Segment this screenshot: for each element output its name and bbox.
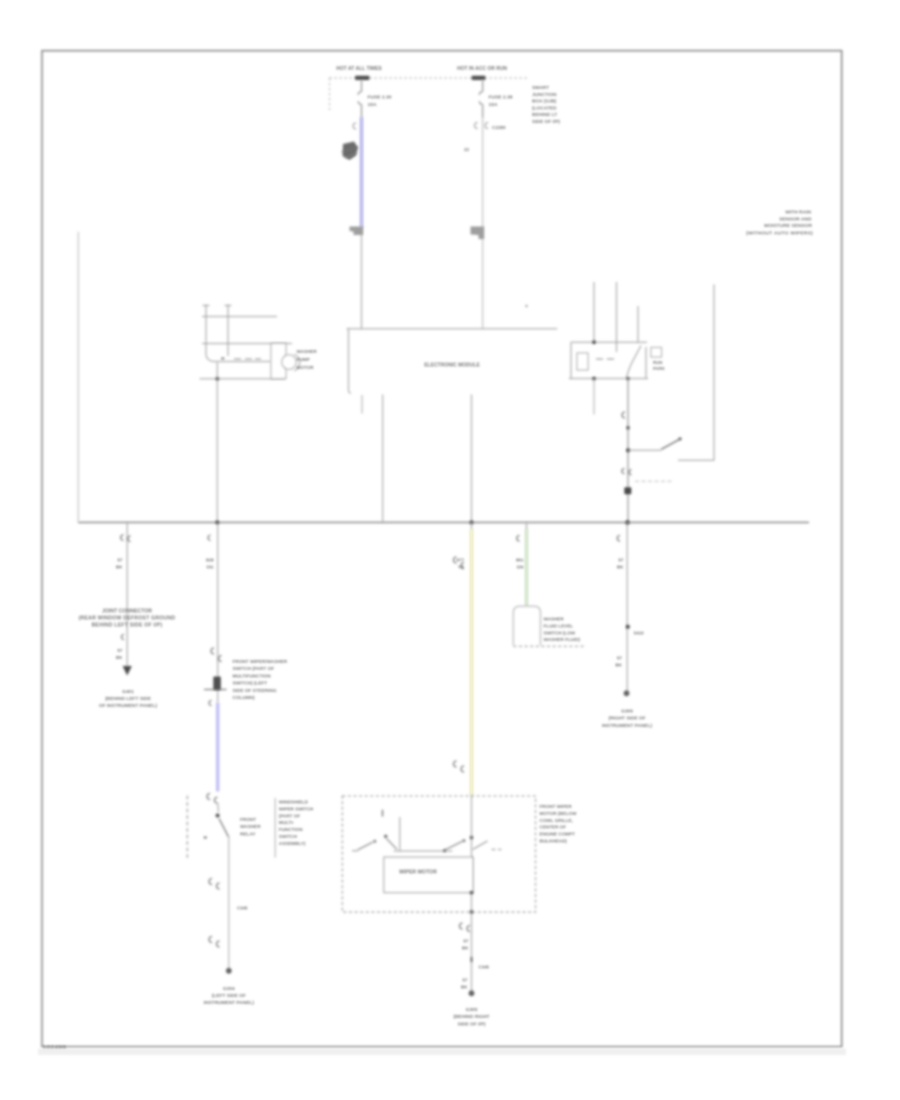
- node dot bus tap 2: [470, 521, 474, 525]
- wiper switch label block: [279, 800, 314, 846]
- wire tall left riser: [77, 232, 79, 523]
- svg-text:MULTI-: MULTI-: [279, 820, 295, 825]
- wire drop W4 green base: [526, 522, 528, 606]
- wire W5 color code: [617, 558, 624, 570]
- park switch right blade: [387, 839, 398, 850]
- svg-text:SWITCH: SWITCH: [279, 834, 298, 839]
- bus bar tap 1: [355, 76, 370, 80]
- ground G305 label: [602, 709, 653, 729]
- svg-text:G305: G305: [621, 709, 633, 715]
- wire W2 color code: [206, 558, 214, 570]
- park switch left blade: [358, 842, 374, 850]
- contact rail: [394, 850, 453, 852]
- motor M1 wire code dashes: [234, 358, 261, 360]
- svg-text:COWL GRILLE,: COWL GRILLE,: [540, 818, 573, 823]
- svg-text:(LOCATED: (LOCATED: [532, 105, 557, 111]
- svg-text:JUNCTION: JUNCTION: [532, 92, 557, 98]
- connector tick: [622, 412, 625, 418]
- svg-text:(PART OF: (PART OF: [279, 813, 301, 818]
- wire ground bus horizontal: [78, 521, 809, 523]
- svg-text:(RIGHT SIDE OF: (RIGHT SIDE OF: [608, 716, 645, 722]
- svg-text:MOISTURE SENSOR: MOISTURE SENSOR: [764, 223, 812, 229]
- svg-text:WASHER FLUID): WASHER FLUID): [544, 637, 581, 642]
- svg-text:S410: S410: [634, 631, 645, 636]
- svg-text:22: 22: [464, 147, 470, 152]
- washer relay label: [240, 817, 261, 836]
- switch label block W2: [233, 659, 288, 700]
- ground G305 dot: [624, 690, 630, 696]
- connector pair marks W2 low: [209, 879, 219, 890]
- splice S3 block: [213, 677, 221, 691]
- svg-text:WITH RAIN: WITH RAIN: [785, 210, 811, 216]
- switch SW2 pivot: [216, 814, 220, 818]
- svg-text:BK: BK: [116, 655, 123, 660]
- ground G304 dot: [226, 968, 232, 974]
- svg-text:57: 57: [618, 558, 624, 563]
- svg-text:15A: 15A: [489, 102, 498, 108]
- run contact blade A: [444, 841, 463, 851]
- wire below enclosure W3 tail: [471, 912, 473, 993]
- connector pair marks below blue: [207, 794, 218, 804]
- wire module drop A: [361, 395, 363, 414]
- node dot enclosure exit: [470, 910, 473, 913]
- svg-text:57: 57: [462, 978, 468, 983]
- connector C2280 marks: [475, 123, 489, 129]
- park contact riser: [399, 817, 401, 851]
- in-line connector on wire 2: [471, 227, 485, 240]
- svg-text:COLUMN): COLUMN): [233, 695, 256, 700]
- wire W3 yellow overlay: [470, 529, 473, 795]
- wire inside enclosure: [471, 796, 473, 912]
- wire below switch SW2: [228, 837, 230, 971]
- svg-text:GN: GN: [517, 565, 525, 570]
- park switch pivot dot: [384, 835, 387, 838]
- wiper motor label block: [540, 804, 578, 844]
- wire drop W5: [626, 522, 628, 693]
- wire W4 color code: [516, 558, 524, 570]
- svg-text:57: 57: [117, 648, 123, 653]
- svg-text:CENTER OF: CENTER OF: [540, 825, 567, 830]
- node junction dot left motor drop: [216, 377, 219, 380]
- svg-text:928: 928: [206, 558, 214, 563]
- svg-text:(WITHOUT AUTO WIPERS): (WITHOUT AUTO WIPERS): [746, 231, 813, 237]
- svg-text:BK: BK: [461, 985, 468, 990]
- connector pair marks W2 lower: [209, 937, 219, 948]
- svg-text:SWITCH (PART OF: SWITCH (PART OF: [233, 666, 275, 671]
- svg-text:(BEHIND LEFT SIDE: (BEHIND LEFT SIDE: [105, 696, 152, 702]
- svg-text:BK: BK: [462, 946, 469, 951]
- svg-text:G401: G401: [122, 689, 134, 695]
- svg-text:SIDE OF I/P): SIDE OF I/P): [458, 1021, 486, 1027]
- svg-text:SENSOR AND: SENSOR AND: [779, 216, 812, 222]
- wire drop W2: [217, 522, 219, 702]
- connector mark W4: [517, 536, 520, 542]
- ground G305b dot: [469, 990, 475, 996]
- switch SW1 blade: [661, 439, 681, 450]
- svg-text:WIPER MOTOR: WIPER MOTOR: [399, 870, 437, 876]
- wire blue segment: [360, 117, 363, 228]
- wire drop W3 yellow base: [471, 522, 473, 796]
- svg-text:57: 57: [117, 558, 123, 563]
- connector mark: [209, 701, 212, 706]
- svg-text:WASHER: WASHER: [297, 349, 318, 354]
- smart junction box label: [532, 85, 560, 125]
- connector pair marks W3 low: [454, 761, 465, 772]
- svg-text:RUN: RUN: [653, 360, 662, 365]
- svg-text:(BEHIND RIGHT: (BEHIND RIGHT: [453, 1014, 489, 1020]
- svg-text:BEHIND LT: BEHIND LT: [532, 112, 557, 118]
- svg-text:WIPER SWITCH: WIPER SWITCH: [279, 806, 314, 811]
- svg-text:FRONT WIPER/WASHER: FRONT WIPER/WASHER: [233, 659, 288, 664]
- svg-text:RELAY: RELAY: [240, 831, 256, 836]
- svg-text:BEHIND LEFT SIDE OF I/P): BEHIND LEFT SIDE OF I/P): [92, 623, 163, 629]
- svg-text:M: M: [204, 835, 208, 840]
- svg-text:FRONT WIPER: FRONT WIPER: [540, 804, 573, 809]
- connector pair marks tail: [460, 923, 471, 932]
- svg-text:FUSE 2.30: FUSE 2.30: [368, 95, 392, 101]
- wire W1 color code lower: [116, 648, 123, 660]
- ground G304 label: [204, 986, 255, 1006]
- ground G401 arrow: [123, 666, 132, 676]
- svg-text:M: M: [221, 356, 225, 361]
- relay K1: [569, 282, 662, 379]
- node dots relay K1: [592, 340, 596, 344]
- svg-text:FUNCTION: FUNCTION: [279, 827, 303, 832]
- svg-text:G304: G304: [223, 986, 235, 992]
- svg-text:INSTRUMENT PANEL): INSTRUMENT PANEL): [204, 1000, 255, 1006]
- connector pin mark: [353, 123, 356, 129]
- washer fluid switch body: [513, 606, 540, 645]
- dashed link line: [186, 796, 188, 859]
- svg-text:C345: C345: [479, 965, 490, 970]
- connector C345 tick: [471, 957, 473, 962]
- connector mark W5: [617, 536, 620, 542]
- svg-text:MOTOR: MOTOR: [297, 365, 315, 370]
- connector pair marks W2: [211, 648, 222, 662]
- bus bar tap 2: [472, 76, 486, 80]
- dashed ref line: [635, 480, 672, 482]
- ground G305b label: [453, 1007, 489, 1027]
- svg-text:(REAR WINDOW DEFROST GROUND: (REAR WINDOW DEFROST GROUND: [79, 616, 176, 622]
- svg-text:WASHER: WASHER: [544, 617, 565, 622]
- connector tick under block: [122, 635, 124, 640]
- motor M1 name label: [297, 349, 318, 370]
- connector label block W1: [79, 609, 176, 629]
- svg-text:INSTRUMENT PANEL): INSTRUMENT PANEL): [602, 723, 653, 729]
- wire tail color code lower: [461, 978, 468, 990]
- note block top right: [746, 210, 813, 237]
- splice S2: [624, 487, 631, 494]
- svg-text:SIDE OF STEERING: SIDE OF STEERING: [233, 688, 277, 693]
- svg-text:57: 57: [463, 939, 469, 944]
- svg-text:(LEFT SIDE OF: (LEFT SIDE OF: [212, 993, 246, 999]
- svg-text:PUMP: PUMP: [297, 357, 310, 362]
- wire W4 green overlay: [525, 529, 528, 605]
- svg-text:SWITCH) (LEFT: SWITCH) (LEFT: [233, 681, 268, 686]
- connector pair marks W3: [454, 557, 465, 569]
- svg-text:SWITCH (LOW: SWITCH (LOW: [544, 630, 576, 635]
- svg-text:C2280: C2280: [492, 125, 506, 130]
- wire switch arm horizontal: [628, 449, 661, 451]
- switch SW2 blade: [219, 819, 229, 838]
- wire drop W1: [126, 522, 128, 667]
- wire motor M1 to bus: [216, 362, 218, 522]
- wire relay K1 stub down: [593, 379, 595, 415]
- svg-text:FRONT: FRONT: [240, 817, 256, 822]
- svg-text:BK: BK: [116, 565, 123, 570]
- in-line connector on wire 1: [350, 227, 364, 236]
- connector mark W1: [121, 535, 131, 542]
- wiper motor dashed enclosure: [342, 796, 535, 912]
- wire tall return line: [678, 284, 714, 460]
- connector pair marks: [622, 469, 632, 475]
- splice S410 dot: [626, 625, 630, 629]
- wire blue segment W2: [216, 703, 219, 792]
- svg-text:977: 977: [456, 558, 464, 563]
- washer pump motor M1: [200, 305, 300, 379]
- splice S1 marker: [343, 142, 359, 161]
- node junction dot at bus: [625, 520, 629, 524]
- bracket line: [274, 798, 276, 858]
- svg-text:PARK: PARK: [653, 366, 666, 371]
- relay K1 side labels: [653, 360, 666, 371]
- svg-text:SIDE OF I/P): SIDE OF I/P): [532, 119, 560, 125]
- node junction dot switch feed: [626, 448, 630, 452]
- node dot bus tap 1: [215, 521, 219, 525]
- pin tick inside: [382, 810, 384, 817]
- svg-text:JOINT CONNECTOR: JOINT CONNECTOR: [102, 609, 152, 615]
- svg-text:BULKHEAD): BULKHEAD): [540, 839, 568, 844]
- node dot: [626, 426, 629, 429]
- svg-text:MOTOR (BELOW: MOTOR (BELOW: [540, 811, 578, 816]
- node dot wiper feed: [470, 836, 473, 839]
- wire relay K1 output to bus: [627, 379, 629, 523]
- svg-text:BOX (SJB): BOX (SJB): [532, 99, 557, 105]
- connector mark W2: [208, 535, 210, 540]
- relay K1 coil code dashes: [596, 358, 614, 360]
- svg-text:YE: YE: [458, 565, 464, 570]
- wire module drop C to bus: [471, 395, 473, 523]
- svg-text:MULTIFUNCTION: MULTIFUNCTION: [233, 673, 272, 678]
- svg-text:SMART: SMART: [532, 85, 549, 91]
- svg-text:G305: G305: [466, 1007, 478, 1013]
- node dot inner box corner: [470, 891, 473, 894]
- wire W1 color code: [116, 558, 123, 570]
- contact dashes right: [492, 849, 502, 851]
- wire W3 color code: [456, 558, 464, 570]
- stray dot: [525, 305, 527, 307]
- wire fuse F2 to module: [482, 118, 484, 329]
- svg-text:BK: BK: [615, 663, 622, 668]
- svg-text:57: 57: [617, 656, 623, 661]
- fuse F2: [479, 80, 482, 118]
- ground G401 label: [99, 689, 158, 709]
- svg-text:FUSE 2.38: FUSE 2.38: [489, 95, 513, 101]
- svg-text:OG: OG: [206, 565, 214, 570]
- washer fluid switch label: [544, 617, 581, 643]
- svg-text:OF INSTRUMENT PANEL): OF INSTRUMENT PANEL): [99, 703, 158, 709]
- svg-text:C345: C345: [237, 906, 248, 911]
- wire fuse F1 to module (base): [361, 118, 363, 329]
- wiper motor inner box: [384, 857, 473, 893]
- svg-text:HOT AT ALL TIMES: HOT AT ALL TIMES: [336, 66, 382, 72]
- svg-text:WASHER: WASHER: [240, 824, 261, 829]
- svg-text:961: 961: [516, 558, 524, 563]
- wire W5 color code lower: [615, 656, 622, 668]
- svg-text:ENGINE COMPT: ENGINE COMPT: [540, 832, 576, 837]
- run contact blade B: [473, 841, 488, 850]
- svg-text:BK: BK: [617, 565, 624, 570]
- wire tail color code: [462, 939, 469, 951]
- svg-text:15A: 15A: [368, 102, 377, 108]
- svg-text:ASSEMBLY): ASSEMBLY): [279, 841, 306, 846]
- svg-text:HOT IN ACC OR RUN: HOT IN ACC OR RUN: [457, 66, 507, 72]
- fuse F1: [358, 80, 361, 118]
- svg-text:WINDSHIELD: WINDSHIELD: [279, 800, 309, 805]
- svg-text:ELECTRONIC MODULE: ELECTRONIC MODULE: [424, 363, 480, 369]
- wire module drop B to bus: [382, 395, 384, 523]
- svg-text:FLUID LEVEL: FLUID LEVEL: [544, 623, 574, 628]
- fuse box dashed enclosure: [330, 78, 529, 110]
- washer fluid switch dashed base: [513, 645, 583, 647]
- module U1 box: [347, 329, 558, 394]
